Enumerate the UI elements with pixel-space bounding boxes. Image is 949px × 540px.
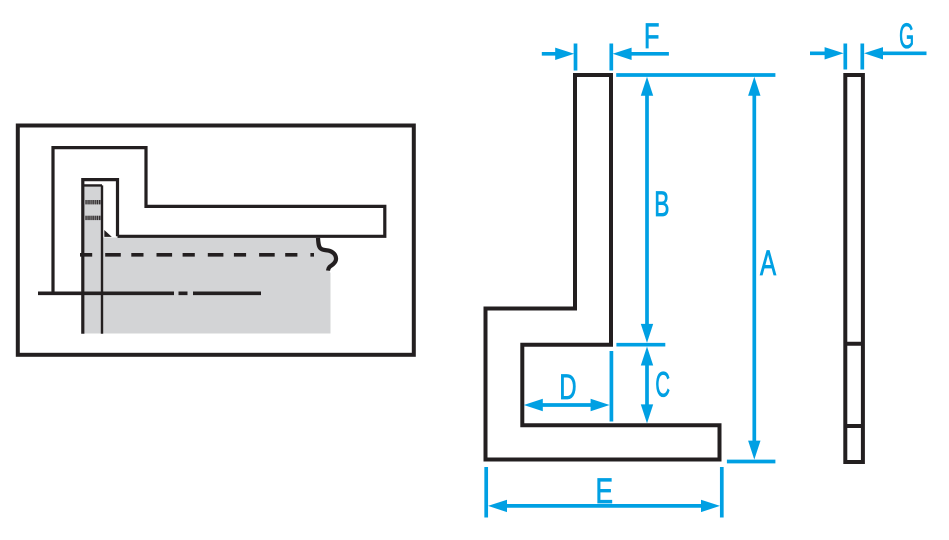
wall outline [53, 148, 385, 293]
E right arrow [701, 500, 720, 512]
A line [752, 95, 756, 442]
profile outline [486, 75, 720, 460]
D line [542, 403, 593, 407]
G shafts [810, 51, 927, 55]
B bottom arrow [641, 324, 653, 343]
break squiggle [318, 238, 336, 271]
G left arrow [825, 47, 844, 59]
C line [645, 364, 649, 406]
gray panel [84, 187, 336, 334]
E line [506, 504, 703, 508]
frame [18, 126, 414, 355]
svg-text:D: D [559, 368, 576, 407]
center line (dash-dot) [38, 291, 261, 295]
side view bend lines [845, 344, 863, 426]
hidden dashed line [80, 253, 314, 257]
C top arrow [641, 347, 653, 366]
svg-text:B: B [654, 185, 669, 224]
D right arrow [591, 399, 610, 411]
hatch band 2 [85, 216, 100, 220]
D extension [610, 351, 614, 422]
hatch band 1 [85, 200, 100, 204]
G right arrow [864, 47, 883, 59]
svg-text:F: F [644, 17, 660, 56]
A top arrow [748, 77, 760, 96]
C top extension [616, 343, 665, 347]
side view strip outline [845, 75, 863, 462]
F left arrow [555, 48, 574, 60]
B top arrow [641, 77, 653, 96]
A/B top extension [616, 73, 775, 77]
svg-text:A: A [760, 245, 776, 283]
B line [645, 95, 649, 326]
bracket inner line [83, 185, 102, 333]
A bottom arrow [748, 441, 760, 460]
C bottom arrow [641, 404, 653, 423]
F right arrow [613, 48, 632, 60]
bracket [83, 180, 118, 334]
svg-text:C: C [655, 366, 670, 405]
G ticks [845, 44, 862, 70]
svg-text:E: E [596, 471, 614, 511]
E left arrow [488, 500, 507, 512]
D left arrow [524, 399, 543, 411]
E ticks [486, 467, 722, 518]
A bottom extension [727, 460, 776, 464]
wedge triangle [104, 230, 112, 237]
F shafts [542, 52, 669, 56]
arrowheads [488, 47, 883, 512]
F ticks [576, 44, 612, 71]
svg-text:G: G [899, 16, 914, 56]
